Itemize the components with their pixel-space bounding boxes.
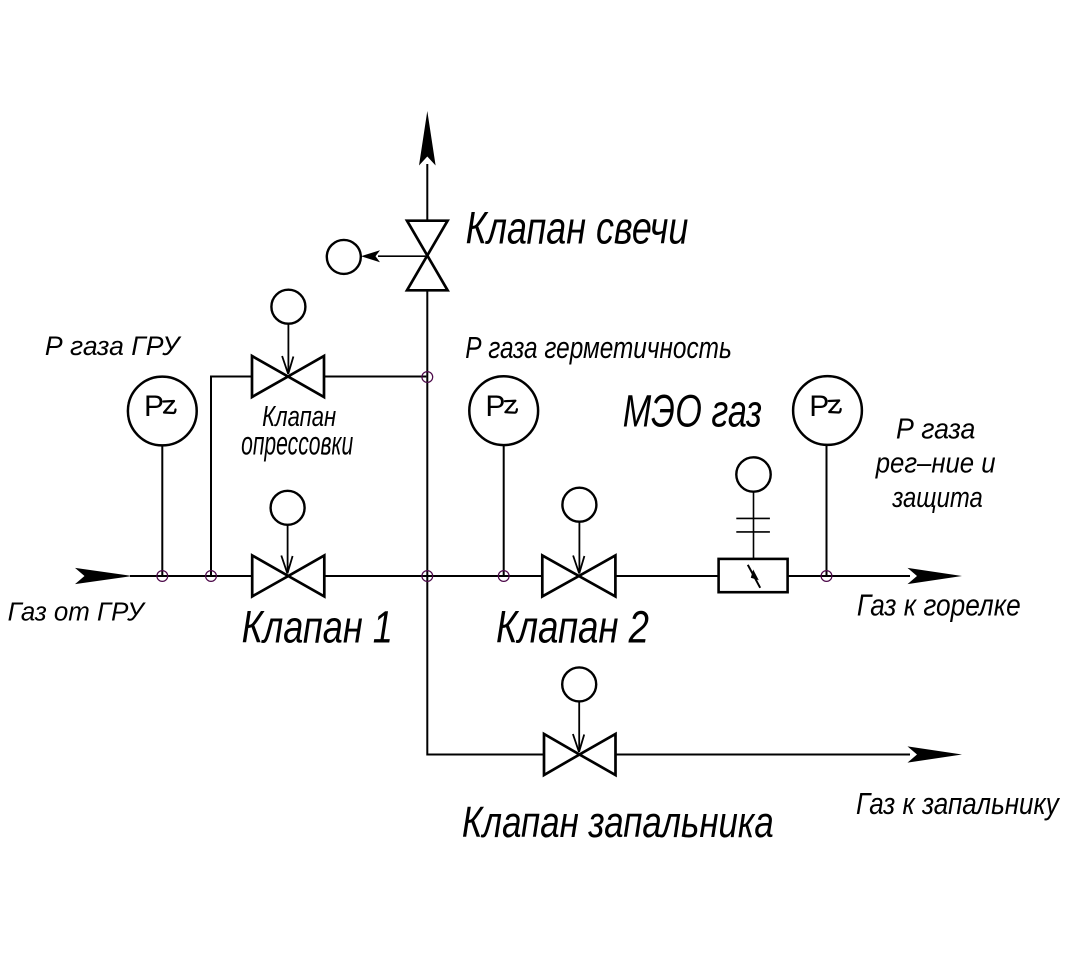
gauge Pg1 circle: [128, 377, 197, 446]
MEO regulating unit rectangle: [719, 559, 788, 592]
label Р газа герметичность: [465, 330, 732, 365]
actuator circle of igniter valve: [562, 667, 596, 752]
label Клапан свечи: [466, 203, 689, 254]
wire bypass pipe right segment: [324, 376, 426, 378]
wire gauge1 stem: [161, 445, 163, 576]
arrow inlet (pointing right): [75, 568, 132, 584]
wire bypass pipe left segment: [211, 376, 252, 378]
label Клапан 2: [496, 602, 649, 653]
actuator circle of pressure-test valve: [271, 290, 305, 374]
wire main pipe segment MEO to outlet: [788, 575, 910, 577]
valve vent (Клапан свечи) vertical bowtie: [407, 221, 448, 291]
svg-text:Р: Р: [485, 390, 505, 423]
node junction bypass on vent line: [422, 372, 433, 383]
svg-text:Клапан 1: Клапан 1: [242, 602, 393, 653]
wire main pipe segment valve2 to MEO: [615, 575, 718, 577]
svg-text:Р газа герметичность: Р газа герметичность: [465, 330, 732, 365]
arrow vent top (pointing up): [419, 111, 436, 166]
label Клапан опрессовки line1: [262, 401, 336, 433]
svg-text:Газ к запальнику: Газ к запальнику: [856, 786, 1061, 821]
svg-text:Р газа: Р газа: [896, 414, 975, 446]
arrow outlet to burner (pointing right): [908, 568, 963, 584]
svg-text:Р: Р: [144, 390, 164, 423]
arrow igniter outlet (pointing right): [908, 746, 963, 762]
node junction bypass drop: [206, 571, 217, 582]
svg-text:Газ к горелке: Газ к горелке: [857, 588, 1021, 623]
wire bottom pipe segment to igniter outlet: [616, 754, 911, 756]
svg-text:Клапан свечи: Клапан свечи: [466, 203, 689, 254]
label Р газа ГРУ: [45, 331, 182, 361]
node junction vent line on main: [422, 571, 433, 582]
label МЭО газ: [623, 386, 762, 437]
wire vertical pipe from vent valve down to bottom line with corner: [427, 290, 544, 754]
wire vertical vent pipe upper segment: [426, 164, 428, 221]
wire gauge3 stem: [826, 445, 828, 576]
gauge Pg2 circle: [469, 376, 538, 445]
svg-text:Клапан 2: Клапан 2: [496, 602, 649, 653]
actuator circle of valve V2: [562, 488, 596, 574]
label Клапан 1: [242, 602, 393, 653]
label Газ к запальнику: [856, 786, 1061, 821]
valve V1 (Клапан 1) bowtie: [252, 555, 324, 596]
label Клапан опрессовки line2: [241, 425, 353, 462]
valve pressure-test (Клапан опрессовки) bowtie: [252, 356, 324, 397]
svg-text:Газ от ГРУ: Газ от ГРУ: [8, 599, 147, 627]
MEO actuator tick marks: [736, 518, 770, 532]
label Р газа рег-ние и защита line2: [875, 447, 996, 479]
svg-text:Р: Р: [809, 390, 829, 423]
wire bypass vertical drop pipe: [210, 376, 212, 577]
actuator circle of valve V1: [271, 491, 305, 574]
gauge Pg3 circle: [793, 376, 862, 445]
node junction gauge1: [157, 571, 168, 582]
svg-text:рег–ние и: рег–ние и: [875, 447, 996, 479]
svg-text:МЭО газ: МЭО газ: [623, 386, 762, 437]
node junction gauge2: [498, 571, 509, 582]
node junction gauge3: [821, 571, 832, 582]
label Р газа рег-ние и защита line1: [896, 414, 975, 446]
svg-text:защита: защита: [891, 482, 982, 514]
actuator circle of vent valve (left side): [327, 240, 428, 274]
wire main pipe segment valve1 to valve2: [324, 575, 542, 577]
svg-text:Клапан запальника: Клапан запальника: [462, 798, 774, 847]
svg-text:опрессовки: опрессовки: [241, 425, 353, 462]
label Клапан запальника: [462, 798, 774, 847]
MEO gas actuator circle: [736, 457, 770, 559]
label Газ к горелке: [857, 588, 1021, 623]
svg-text:Р газа ГРУ: Р газа ГРУ: [45, 331, 182, 361]
valve igniter (Клапан запальника) bowtie: [544, 734, 616, 775]
label Р газа рег-ние и защита line3: [891, 482, 982, 514]
valve V2 (Клапан 2) bowtie: [542, 555, 615, 596]
label Газ от ГРУ: [8, 599, 147, 627]
wire main pipe segment inlet to valve1: [130, 575, 252, 577]
wire gauge2 stem: [503, 445, 505, 576]
